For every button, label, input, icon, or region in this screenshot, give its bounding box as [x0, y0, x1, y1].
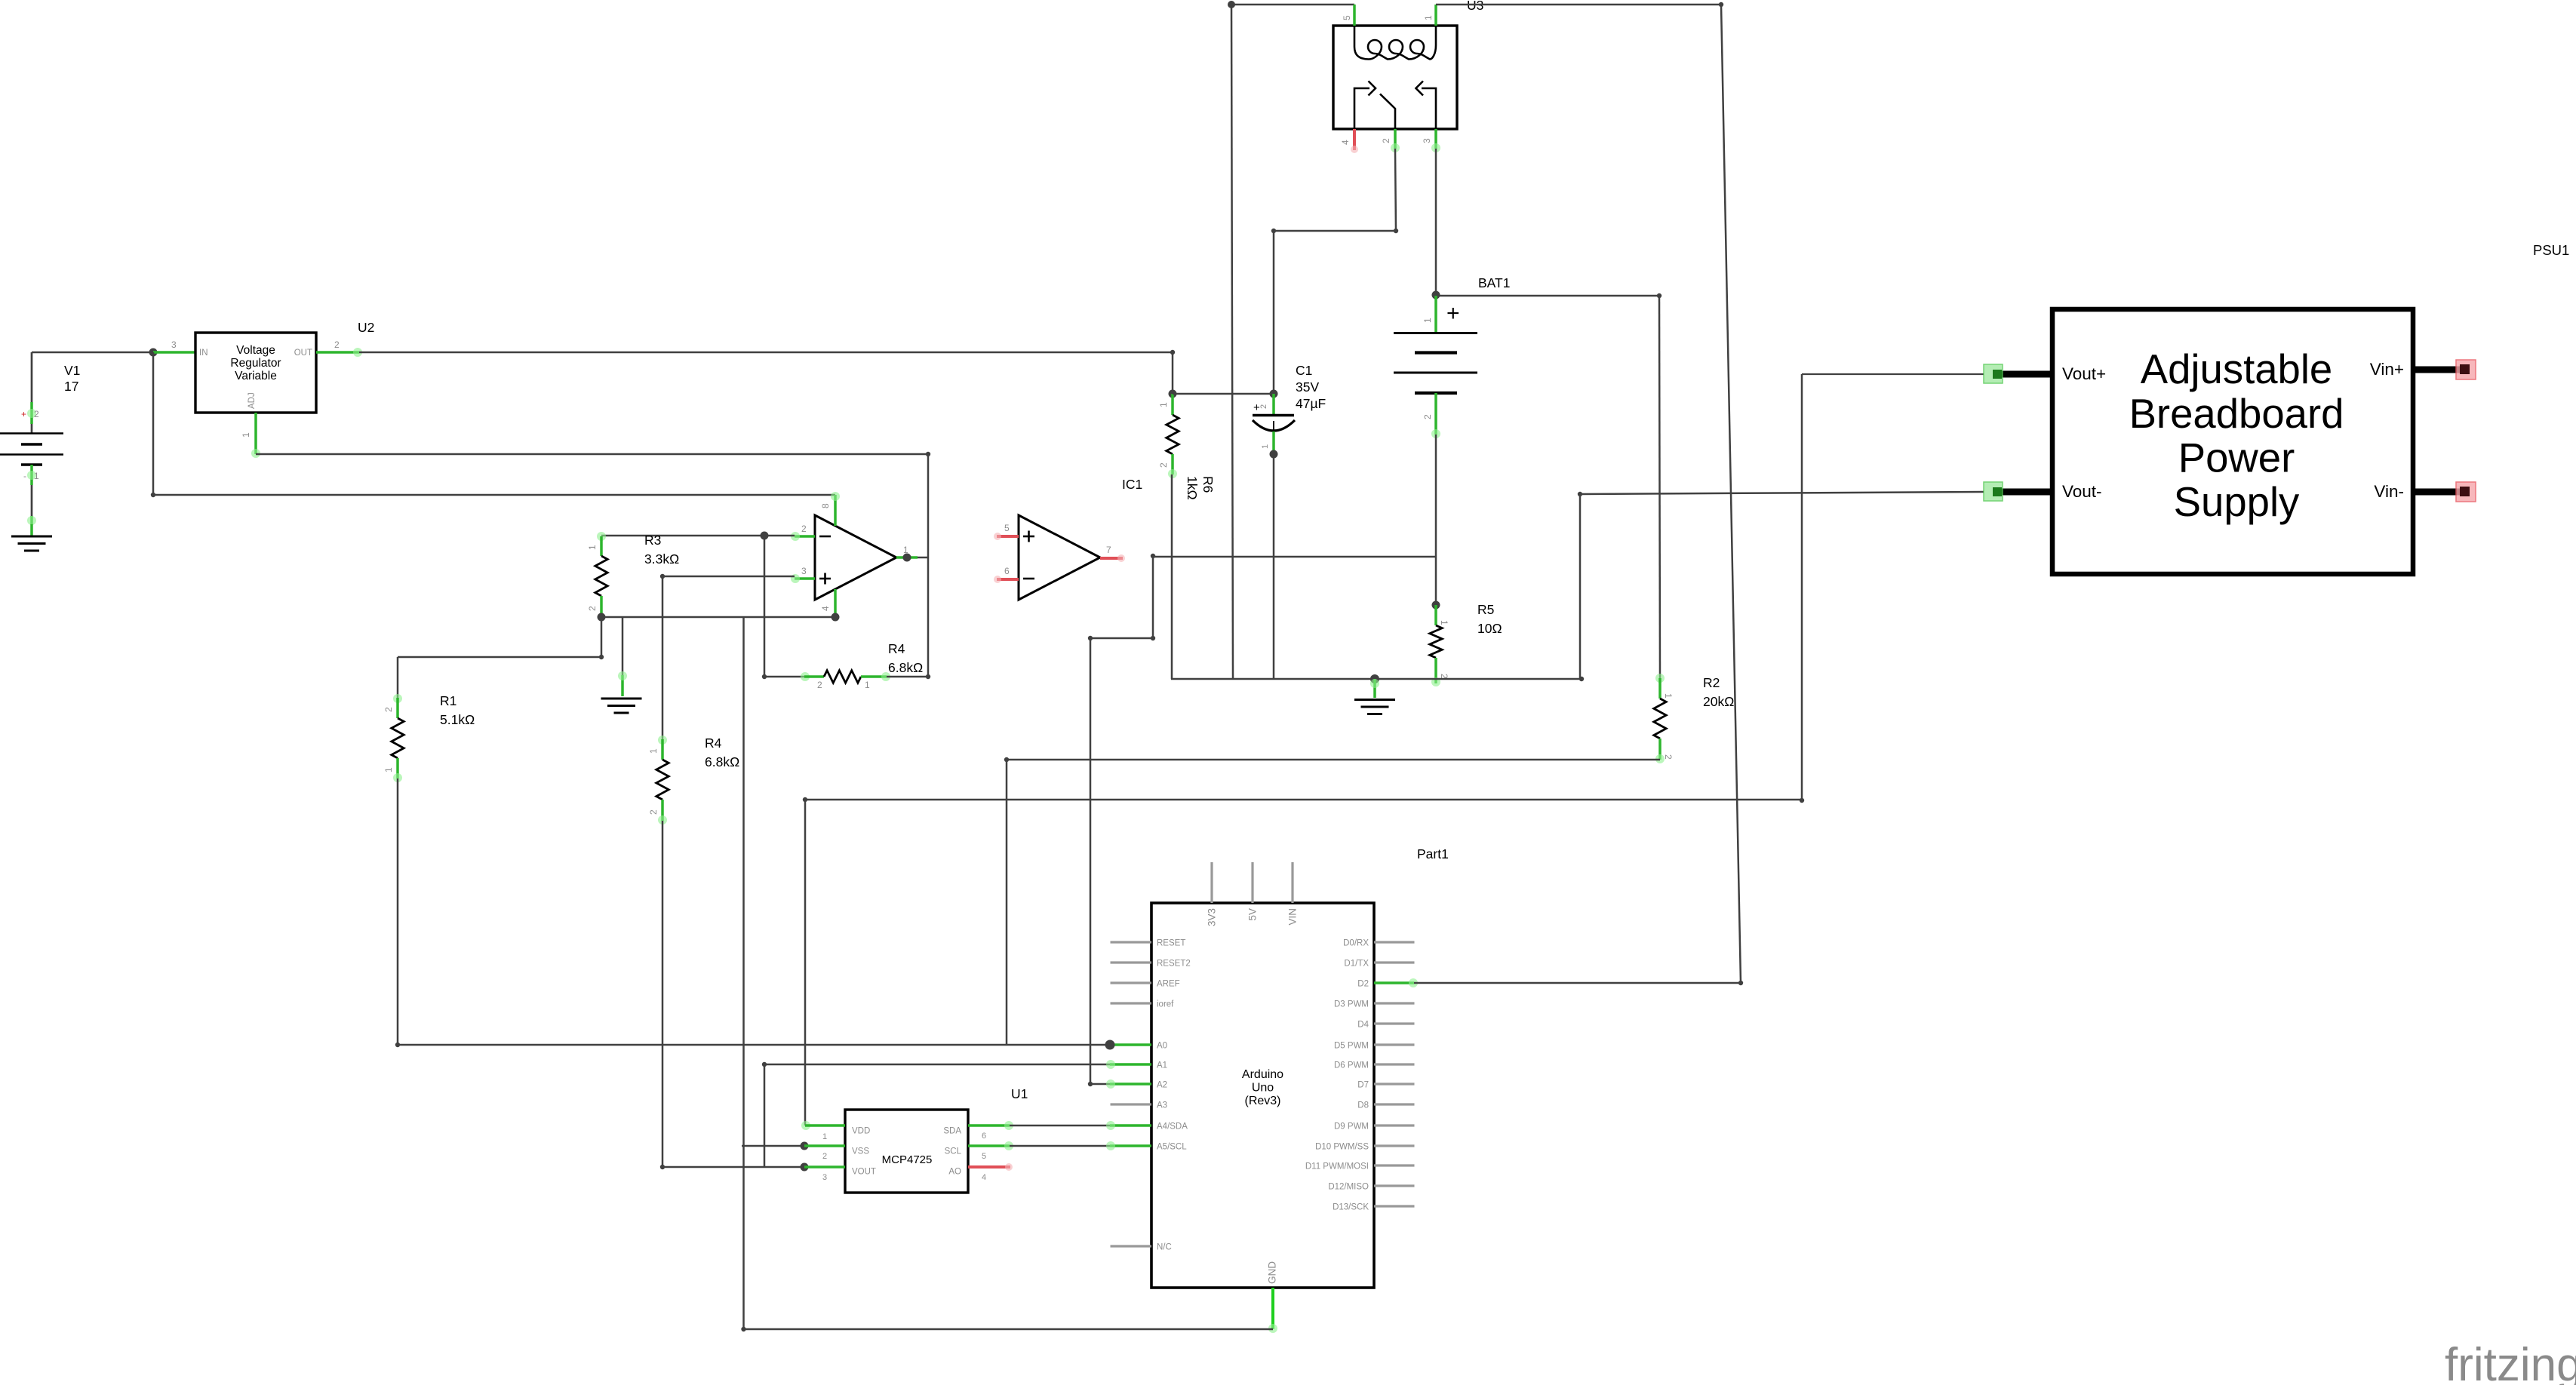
svg-text:1: 1 [1439, 620, 1449, 625]
wire relay top-left node [1228, 1, 1354, 8]
svg-text:AREF: AREF [1157, 980, 1180, 989]
relay U3 [1333, 26, 1457, 129]
svg-text:1: 1 [1158, 402, 1169, 407]
svg-text:35V: 35V [1296, 379, 1319, 395]
relay pin 5 [1342, 5, 1354, 26]
wire U2 ADJ pin1 [241, 413, 260, 458]
svg-text:IN: IN [199, 349, 208, 358]
svg-text:IC1: IC1 [1122, 477, 1142, 492]
svg-text:5V: 5V [1247, 908, 1259, 921]
ground G2 [601, 699, 642, 713]
svg-text:Power: Power [2178, 435, 2295, 481]
wire pin2 node down to R4h left [764, 536, 804, 677]
Arduino Uno Part1 body [1151, 903, 1374, 1288]
wire IC1a pin3 to R4 top [662, 576, 795, 739]
label R5 10 [1477, 602, 1502, 636]
label U1 [1011, 1086, 1028, 1101]
label R2 20k [1703, 675, 1734, 709]
svg-text:A4/SDA: A4/SDA [1157, 1122, 1188, 1132]
wire R3 node to R1 top [398, 617, 601, 698]
svg-text:1: 1 [241, 432, 251, 438]
node pin4 junction [832, 613, 840, 622]
svg-text:3: 3 [171, 339, 177, 350]
svg-text:AO: AO [948, 1168, 961, 1177]
capacitor C1 [1253, 394, 1295, 453]
svg-text:1: 1 [822, 1132, 827, 1141]
Arduino left gray pins [1111, 942, 1152, 1246]
svg-text:D6 PWM: D6 PWM [1334, 1061, 1369, 1070]
ground G3 [1354, 679, 1395, 714]
resistor R3 [587, 532, 607, 617]
wire relay pin2 to C1 node [1274, 149, 1396, 394]
svg-text:R4: R4 [705, 735, 722, 751]
Arduino pin A1 [1106, 1060, 1151, 1069]
svg-text:+: + [21, 409, 26, 419]
svg-text:5: 5 [1004, 523, 1010, 533]
wire SCL to A5 [1010, 1145, 1110, 1147]
Arduino pin A0 [1105, 1040, 1152, 1050]
wire bend points [151, 2, 1804, 1331]
wire V1- to ground [27, 516, 36, 536]
svg-text:5.1kΩ: 5.1kΩ [440, 712, 475, 727]
svg-text:8: 8 [820, 503, 831, 508]
wire ADJ feedback to R4 right [256, 454, 928, 677]
resistor R6 [1158, 394, 1179, 478]
svg-text:A3: A3 [1157, 1101, 1167, 1110]
node V1/U2-IN junction [149, 349, 158, 357]
svg-text:ADJ: ADJ [247, 392, 257, 409]
svg-text:2: 2 [822, 1152, 827, 1161]
svg-text:VOUT: VOUT [852, 1168, 876, 1177]
node R3 bottom junction [598, 613, 606, 622]
power supply PSU1 box [2052, 309, 2413, 574]
svg-text:R4: R4 [888, 641, 905, 656]
wire IC1b out node to BAT1- rail [1153, 556, 1436, 558]
resistor R5 [1430, 605, 1449, 686]
node pin2 junction [761, 532, 769, 540]
svg-text:6.8kΩ: 6.8kΩ [888, 660, 923, 675]
op-amp IC1b pin 5 (red stub) [994, 523, 1019, 540]
wire R1 bottom to A0 [398, 778, 1110, 1045]
wire IC1b node to A2 (L path) [1090, 557, 1153, 1084]
svg-text:A2: A2 [1157, 1081, 1167, 1090]
U1 pin 5 SCL [968, 1141, 1013, 1161]
svg-text:3.3kΩ: 3.3kΩ [644, 551, 679, 567]
U1 pin 4 AO (red stub) [968, 1163, 1013, 1182]
label U3 [1467, 0, 1483, 13]
label U2 [358, 320, 374, 335]
svg-text:2: 2 [334, 339, 340, 350]
svg-text:2: 2 [587, 606, 598, 611]
Arduino pin A4/SDA [1106, 1121, 1151, 1130]
svg-text:2: 2 [34, 409, 39, 419]
svg-text:A0: A0 [1157, 1042, 1167, 1051]
label Part1 [1417, 846, 1449, 861]
PSU Vin+ terminal (red) [2413, 360, 2476, 379]
svg-text:2: 2 [1158, 462, 1169, 468]
svg-text:2: 2 [801, 524, 807, 534]
svg-text:R2: R2 [1703, 675, 1720, 690]
svg-text:RESET2: RESET2 [1157, 960, 1191, 969]
op-amp IC1a pin 1 output [896, 545, 918, 557]
op-amp IC1b pin 7 output (red stub) [1100, 545, 1125, 562]
wire R6 bottom down to ground rail [1171, 474, 1173, 679]
svg-text:D12/MISO: D12/MISO [1328, 1183, 1369, 1192]
node IC1a output junction [903, 554, 929, 562]
svg-text:Part1: Part1 [1417, 846, 1449, 861]
node BAT1 top junction [1432, 291, 1440, 299]
svg-text:Adjustable: Adjustable [2141, 346, 2333, 392]
node ground junction [1370, 674, 1379, 683]
wire R3 top to IC1a pin2 [601, 535, 795, 537]
svg-text:D1/TX: D1/TX [1344, 960, 1369, 969]
label R1 5.1k [440, 693, 475, 727]
PSU Vout- terminal [1984, 482, 2052, 501]
svg-text:4: 4 [982, 1173, 986, 1182]
U1 pin 3 VOUT [801, 1163, 846, 1183]
svg-text:10Ω: 10Ω [1477, 621, 1502, 636]
svg-text:OUT: OUT [294, 349, 312, 358]
relay pin 2 [1381, 129, 1400, 152]
svg-text:2: 2 [383, 707, 394, 712]
svg-text:D13/SCK: D13/SCK [1333, 1203, 1369, 1212]
svg-text:ioref: ioref [1157, 1000, 1174, 1009]
svg-text:Supply: Supply [2174, 479, 2300, 525]
wire V1 node to op-amp pin8 rail [153, 352, 835, 495]
svg-text:Vin+: Vin+ [2370, 360, 2404, 379]
svg-text:Vout+: Vout+ [2062, 364, 2106, 383]
op-amp IC1a pin 3 (non-inverting) [791, 566, 815, 583]
Arduino top pin stubs 3V3 5V VIN [1212, 862, 1293, 903]
svg-text:1kΩ: 1kΩ [1185, 476, 1200, 500]
svg-text:SDA: SDA [943, 1127, 961, 1136]
svg-text:6: 6 [1004, 566, 1010, 576]
wire R3 bottom rail to pin4 [601, 616, 835, 619]
svg-text:(Rev3): (Rev3) [1244, 1095, 1280, 1107]
svg-text:3: 3 [1422, 138, 1432, 143]
PSU Vin- terminal (red) [2413, 482, 2476, 502]
wire D2 run [1414, 982, 1741, 984]
svg-text:6: 6 [982, 1132, 986, 1141]
svg-text:17: 17 [64, 379, 78, 394]
op-amp IC1b [1019, 515, 1100, 600]
wire R6 node to C1 node [1173, 393, 1274, 395]
svg-text:D3 PWM: D3 PWM [1334, 1000, 1369, 1009]
svg-text:A5/SCL: A5/SCL [1157, 1143, 1187, 1152]
svg-text:R1: R1 [440, 693, 456, 708]
wire pin3 to U2 IN [153, 339, 195, 352]
svg-text:D0/RX: D0/RX [1343, 939, 1369, 948]
Arduino right gray pins [1374, 942, 1415, 1206]
svg-text:R5: R5 [1477, 602, 1494, 617]
wire VDD rail to Vout+ [805, 374, 1984, 800]
svg-text:Vin-: Vin- [2374, 482, 2404, 501]
svg-text:D11 PWM/MOSI: D11 PWM/MOSI [1305, 1162, 1369, 1172]
Arduino pin GND [1268, 1288, 1277, 1333]
relay pin 1 [1423, 5, 1436, 26]
svg-text:-: - [23, 471, 26, 481]
label PSU1 [2533, 242, 2569, 258]
node R6 top junction [1169, 390, 1177, 398]
Arduino pin D2 [1374, 978, 1418, 987]
svg-text:PSU1: PSU1 [2533, 242, 2569, 258]
wire BAT1- down to R5 [1435, 435, 1437, 605]
svg-text:4: 4 [820, 606, 831, 611]
node C1 top junction [1270, 390, 1278, 398]
svg-text:1: 1 [34, 471, 39, 481]
svg-text:MCP4725: MCP4725 [882, 1153, 933, 1166]
label R6 1k [1185, 476, 1216, 500]
svg-text:BAT1: BAT1 [1478, 275, 1510, 290]
op-amp IC1a [815, 515, 896, 600]
wire GND to VSS rail [744, 1328, 1274, 1331]
wire C1 bottom to ground rail [1273, 454, 1275, 679]
svg-text:1: 1 [1422, 318, 1433, 323]
svg-text:1: 1 [1423, 15, 1434, 20]
svg-text:1: 1 [587, 545, 598, 550]
svg-text:D4: D4 [1357, 1021, 1369, 1030]
svg-text:2: 2 [1422, 414, 1433, 419]
svg-text:Arduino: Arduino [1242, 1068, 1283, 1081]
svg-text:A1: A1 [1157, 1061, 1167, 1070]
wire relay left vertical to ground rail [1231, 5, 1233, 679]
svg-text:47µF: 47µF [1296, 396, 1326, 411]
svg-text:2: 2 [648, 809, 659, 815]
wire SDA to A4 [1010, 1125, 1110, 1127]
node R5 top junction [1432, 601, 1440, 610]
label V1 17 [64, 363, 80, 394]
svg-text:1: 1 [383, 767, 394, 772]
voltage regulator U2 [195, 333, 316, 413]
svg-text:Uno: Uno [1252, 1082, 1274, 1095]
svg-text:7: 7 [1106, 545, 1111, 555]
svg-text:U3: U3 [1467, 0, 1483, 13]
svg-text:D8: D8 [1357, 1101, 1369, 1110]
wire rail to VSS rail (vertical) [742, 617, 745, 1329]
svg-text:D10 PWM/SS: D10 PWM/SS [1315, 1143, 1369, 1152]
wire relay pin3 to BAT1 [1435, 149, 1437, 294]
resistor R4 (horizontal) [801, 671, 890, 690]
svg-text:R6: R6 [1200, 476, 1216, 493]
label R3 3.3k [644, 533, 679, 567]
svg-text:Regulator: Regulator [230, 357, 281, 370]
svg-text:RESET: RESET [1157, 939, 1185, 948]
svg-text:1: 1 [1261, 444, 1270, 449]
svg-text:Vout-: Vout- [2062, 482, 2102, 501]
svg-text:Breadboard: Breadboard [2129, 391, 2344, 437]
wire U2 OUT pin2 [316, 339, 362, 357]
op-amp IC1a pin 4 [820, 589, 835, 617]
svg-text:SCL: SCL [945, 1147, 962, 1156]
svg-text:6.8kΩ: 6.8kΩ [705, 754, 739, 769]
fritzing watermark [2445, 1339, 2576, 1385]
Arduino pin A5/SCL [1106, 1141, 1151, 1150]
svg-text:VSS: VSS [852, 1147, 869, 1156]
IC U1 MCP4725 [845, 1110, 968, 1193]
svg-text:3: 3 [822, 1173, 827, 1182]
label BAT1 [1478, 275, 1510, 290]
svg-text:2: 2 [1663, 754, 1674, 760]
op-amp IC1a pin 8 [820, 492, 840, 526]
label R4 6.8k (feedback) [888, 641, 923, 675]
svg-text:1: 1 [648, 748, 659, 754]
wire VSS rail [742, 1145, 804, 1147]
svg-text:2: 2 [817, 680, 822, 690]
PSU Vout+ terminal [1984, 364, 2052, 383]
op-amp IC1b pin 6 (red stub) [994, 566, 1019, 583]
svg-text:1: 1 [865, 680, 870, 690]
svg-text:3V3: 3V3 [1207, 908, 1218, 926]
svg-text:D5 PWM: D5 PWM [1334, 1042, 1369, 1051]
svg-text:VIN: VIN [1287, 908, 1299, 926]
svg-text:C1: C1 [1296, 363, 1312, 378]
svg-text:1: 1 [1663, 693, 1674, 699]
wire V1+ to node [32, 352, 153, 354]
node C1 bottom junction [1270, 450, 1278, 459]
label IC1 [1122, 477, 1142, 492]
resistor R4 (vertical) [648, 735, 669, 825]
ground G1 [11, 536, 52, 551]
wire A1 to VOUT rail [764, 1064, 1110, 1167]
wire VDD rail down to U1 VDD [804, 800, 807, 1126]
U1 pin 6 SDA [968, 1121, 1013, 1141]
svg-text:5: 5 [982, 1152, 986, 1161]
relay pin 4 (red stub) [1340, 129, 1358, 153]
wire R4 bottom to VOUT rail [662, 821, 804, 1167]
battery V1 [0, 352, 63, 516]
svg-text:U1: U1 [1011, 1086, 1028, 1101]
wire ground rail up to Vout- [1580, 492, 1984, 679]
svg-text:D7: D7 [1357, 1081, 1369, 1090]
svg-text:N/C: N/C [1157, 1243, 1172, 1252]
wire R4h right to ADJ vertical [887, 676, 928, 678]
battery BAT1 [1394, 296, 1477, 438]
svg-text:+: + [1446, 301, 1460, 326]
U1 pin 2 VSS [801, 1142, 846, 1162]
wire U2 OUT to R6 top [359, 352, 1173, 394]
resistor R1 [383, 694, 404, 782]
wire relay pin1 to D2 (top run) [1436, 5, 1741, 983]
svg-text:U2: U2 [358, 320, 374, 335]
svg-text:R3: R3 [644, 533, 661, 548]
resistor R2 [1654, 674, 1674, 763]
svg-text:GND: GND [1267, 1261, 1278, 1284]
svg-text:20kΩ: 20kΩ [1703, 694, 1734, 709]
wire ground rail [1171, 678, 1580, 680]
svg-text:D2: D2 [1357, 980, 1369, 989]
svg-text:2: 2 [1381, 138, 1391, 143]
svg-text:3: 3 [801, 566, 807, 576]
svg-text:Variable: Variable [235, 370, 277, 382]
svg-text:Voltage: Voltage [236, 344, 275, 357]
label R4 6.8k [705, 735, 739, 769]
svg-text:4: 4 [1340, 140, 1351, 145]
svg-text:V1: V1 [64, 363, 80, 378]
svg-text:2: 2 [1259, 404, 1268, 409]
label C1 35V 47uF [1296, 363, 1326, 411]
svg-text:D9 PWM: D9 PWM [1334, 1122, 1369, 1132]
wire BAT1 node to R2 top [1436, 296, 1660, 678]
wire A0 node to R2 bottom [1007, 760, 1660, 1045]
U1 pin 1 VDD [801, 1121, 845, 1141]
Arduino pin A2 [1106, 1079, 1151, 1089]
svg-text:5: 5 [1342, 15, 1352, 20]
svg-text:VDD: VDD [852, 1127, 870, 1136]
svg-text:fritzing: fritzing [2445, 1339, 2576, 1385]
op-amp IC1a pin 2 (inverting) [791, 524, 815, 541]
relay pin 3 [1422, 129, 1440, 152]
wire rail drop to ground G2 [618, 617, 627, 696]
